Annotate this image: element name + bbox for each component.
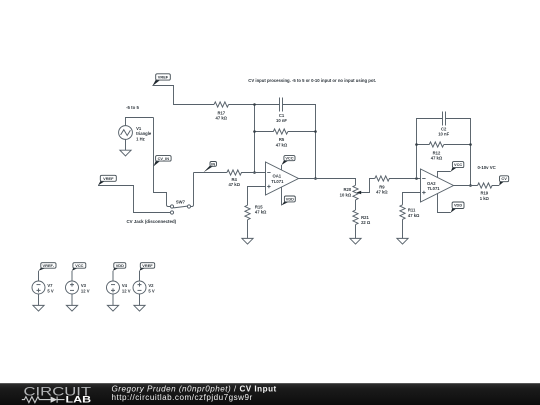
svg-text:47 kΩ: 47 kΩ [255, 210, 267, 215]
svg-text:OA1: OA1 [273, 173, 282, 178]
resistor R12 47k [417, 142, 444, 161]
wire OA2 feedback left vertical [417, 119, 443, 179]
junction R12 left [415, 143, 418, 146]
svg-text:VCC: VCC [285, 156, 293, 161]
switch SW7 [170, 200, 190, 214]
svg-text:47 kΩ: 47 kΩ [431, 155, 443, 160]
svg-text:47 kΩ: 47 kΩ [376, 190, 388, 195]
op-amp OA1 TL071 [266, 162, 299, 195]
wire V1 bottom [125, 139, 127, 150]
ground V7 [33, 305, 44, 311]
junction OA2 output node [469, 184, 472, 187]
flag VDD OA1 [282, 187, 296, 205]
flag VREF top [152, 74, 170, 86]
svg-text:CV_IN: CV_IN [158, 156, 170, 161]
wire R5 right lead [288, 131, 316, 133]
svg-text:10 nF: 10 nF [438, 131, 449, 136]
wire OA2 output [454, 185, 478, 187]
wire R21 to ground [355, 225, 357, 239]
capacitor C2 10nF [438, 112, 449, 137]
potentiometer R20 10k [340, 179, 375, 200]
ground R21 [350, 238, 361, 244]
flag VDD OA2 [438, 194, 465, 213]
voltage source V2 (VREF) [133, 263, 155, 306]
svg-text:VREF: VREF [158, 74, 169, 79]
wire pot to R21 [355, 200, 357, 210]
svg-text:IN: IN [211, 161, 215, 166]
svg-text:47 kΩ: 47 kΩ [276, 142, 288, 147]
svg-text:0-10v VC: 0-10v VC [478, 165, 496, 170]
svg-text:VDD: VDD [286, 196, 294, 201]
svg-text:CV input processing. -5 to 5 o: CV input processing. -5 to 5 or 0-10 inp… [248, 78, 376, 83]
junction OA2 minus node [415, 177, 418, 180]
wire R17 to node A [229, 104, 280, 106]
svg-text:TL071: TL071 [271, 179, 284, 184]
op-amp OA2 TL071 [421, 169, 454, 202]
svg-text:http://circuitlab.com/czfpjdu7: http://circuitlab.com/czfpjdu7gsw9r [112, 393, 253, 402]
svg-text:VDD: VDD [116, 263, 124, 268]
ground V2 [134, 305, 145, 311]
svg-text:47 kΩ: 47 kΩ [228, 182, 240, 187]
logo resistor squiggle [22, 397, 51, 403]
flag CV_IN [154, 156, 172, 167]
svg-text:12 V: 12 V [81, 288, 90, 293]
svg-text:VCC: VCC [75, 263, 83, 268]
wire C1 to right feedback vertical [283, 105, 316, 179]
wire CV_IN vertical to switch P1 [154, 118, 171, 207]
svg-text:47 kΩ: 47 kΩ [216, 116, 228, 121]
svg-text:CV: CV [501, 176, 507, 181]
junction OA1 minus node [253, 171, 256, 174]
svg-text:V3: V3 [81, 283, 87, 288]
wire node A vertical [254, 105, 256, 173]
ground R11 [397, 238, 408, 244]
wire VREF left to switch P3 [98, 186, 170, 213]
wire V1 top to CV_IN line [126, 118, 154, 126]
svg-text:VREF-: VREF- [43, 263, 55, 268]
ground V4 [107, 305, 118, 311]
svg-text:Gregory Pruden (n0npr0phet) /: Gregory Pruden (n0npr0phet) / CV Input [112, 384, 277, 393]
wire IN node [194, 172, 227, 174]
voltage source V7 (VREF-) [32, 263, 56, 306]
svg-text:R4: R4 [232, 177, 238, 182]
junction R12 right [469, 143, 472, 146]
svg-text:1 kΩ: 1 kΩ [480, 196, 490, 201]
ground R15 [242, 238, 253, 244]
svg-text:V4: V4 [122, 283, 128, 288]
resistor R4 47k [227, 170, 266, 187]
capacitor C1 10nF [276, 98, 287, 124]
svg-text:47 kΩ: 47 kΩ [408, 213, 420, 218]
svg-text:VCC: VCC [454, 162, 462, 167]
svg-text:10 nF: 10 nF [276, 118, 287, 123]
wire OA1 plus input [248, 187, 266, 206]
svg-text:R5: R5 [279, 137, 285, 142]
resistor R9 47k [375, 176, 421, 195]
svg-text:TL071: TL071 [428, 186, 441, 191]
svg-text:VREF: VREF [103, 176, 114, 181]
svg-text:VREF: VREF [142, 263, 153, 268]
resistor R21 22ohm [353, 210, 371, 225]
svg-text:R20: R20 [344, 187, 352, 192]
resistor R19 1k [478, 183, 500, 201]
wire R12 right lead [444, 144, 471, 146]
svg-text:V2: V2 [148, 283, 154, 288]
wire R11 to ground [402, 219, 404, 238]
voltage source V1 triangle 1 Hz [119, 126, 152, 142]
voltage source V4 (VDD) [107, 263, 131, 306]
junction R5 right [314, 130, 317, 133]
svg-text:12 V: 12 V [122, 288, 131, 293]
junction R5 left [253, 130, 256, 133]
wire C2 right to output vertical [446, 119, 471, 186]
flag IN [204, 161, 217, 172]
svg-text:5 V: 5 V [148, 288, 154, 293]
resistor R5 47k [255, 129, 288, 147]
ground V3 [66, 305, 77, 311]
svg-text:10 kΩ: 10 kΩ [340, 193, 352, 198]
svg-text:CV Jack (disconnected): CV Jack (disconnected) [127, 219, 177, 224]
flag VCC OA2 [438, 162, 464, 178]
svg-text:-5 to 5: -5 to 5 [126, 105, 139, 110]
wire VREF flag to R17 [152, 86, 214, 105]
svg-text:1 Hz: 1 Hz [136, 136, 145, 141]
wire R15 to ground [247, 220, 249, 239]
voltage source V3 (VCC) [66, 263, 90, 306]
svg-text:22 Ω: 22 Ω [361, 220, 371, 225]
logo diode [51, 397, 65, 403]
flag CV [499, 176, 509, 186]
wire OA2 plus input [403, 193, 421, 205]
ground V1 [120, 150, 131, 156]
svg-text:VDD: VDD [454, 203, 462, 208]
wire OA1 output to pot R20 [299, 179, 356, 186]
svg-text:SW7: SW7 [176, 200, 186, 205]
junction node A top [253, 103, 256, 106]
resistor R11 47k [400, 205, 420, 220]
junction OA1 output node [314, 177, 317, 180]
svg-text:LAB: LAB [66, 395, 92, 405]
resistor R15 47k [245, 205, 267, 220]
svg-text:5 V: 5 V [47, 288, 53, 293]
svg-text:V7: V7 [47, 283, 53, 288]
banner background [0, 383, 540, 405]
wire switch P2 up to IN line [191, 173, 194, 207]
flag VCC OA1 [282, 156, 296, 170]
flag VREF left [98, 175, 116, 185]
resistor R17 47k [214, 102, 229, 121]
